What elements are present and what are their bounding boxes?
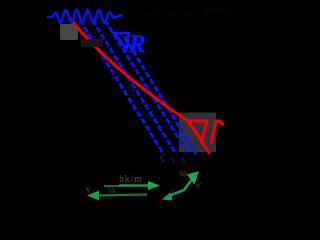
dim residual dash below L3 end [182,158,186,164]
red straight transition line [70,19,209,153]
green arrow pointing right [104,185,120,187]
green arrow pointing left [97,195,147,196]
svg-text:energy: energy [205,3,235,15]
svg-text:v': v' [196,181,202,190]
bent arrow SW head [162,193,173,201]
svg-text:R: R [128,31,146,58]
dim residual dash below L1 end [160,156,164,162]
svg-text:scattering rate: scattering rate [136,8,201,20]
dim residual dash below L2 end [171,157,175,163]
dashed level line L2 [92,20,175,154]
bent arrow NE head [187,171,199,185]
svg-text:hk: hk [108,186,116,195]
svg-text:v: v [86,184,91,194]
photon wave (blue sine) [48,10,122,23]
dashed level line L4 [122,33,196,154]
red r of label ∇r [212,121,223,142]
gray label backdrop (red label) [179,113,216,153]
svg-text:hk/m: hk/m [119,174,143,185]
blue nabla glyph of label ∇R [114,33,129,49]
dark bar under labels [81,39,103,47]
svg-text:q: q [171,186,175,195]
green bent arrow shaft [167,178,193,197]
svg-text:hk: hk [180,169,188,178]
dashed level line L3 [105,20,188,153]
label box (dark) near wave [60,24,78,40]
red nabla glyph of label ∇r [188,121,207,141]
dashed level line L1 [80,20,164,155]
